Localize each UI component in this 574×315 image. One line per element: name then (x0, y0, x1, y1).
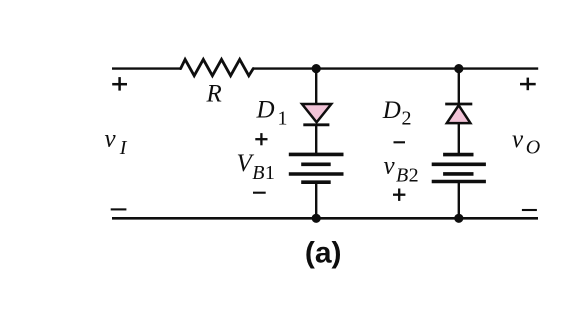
wire branch2 upper (458, 69, 460, 104)
wire top-right segment (253, 67, 538, 69)
battery VB2 plate short (443, 172, 473, 176)
plus sign VB1 (255, 133, 267, 145)
wire branch1 middle (315, 125, 317, 155)
battery VB1 plate long (289, 172, 344, 176)
minus sign VB1 (253, 192, 266, 194)
svg-text:2: 2 (402, 108, 412, 130)
diode D2 cathode bar (445, 103, 472, 106)
diode D2 triangle (447, 105, 471, 123)
minus sign output terminal (522, 209, 537, 211)
battery VB2 plate long (432, 163, 486, 167)
battery VB1 plate short (301, 163, 331, 167)
svg-text:I: I (119, 137, 128, 159)
svg-text:D: D (256, 96, 275, 123)
diode D1 cathode bar (303, 123, 329, 126)
node top-left junction dot (312, 64, 321, 73)
plus sign input terminal (112, 77, 127, 91)
svg-text:1: 1 (278, 108, 288, 130)
battery VB2 plate long bottom (432, 180, 486, 184)
node top-right junction dot (454, 64, 463, 73)
svg-text:B: B (396, 165, 408, 187)
svg-text:v: v (512, 126, 524, 153)
svg-text:D: D (382, 97, 401, 124)
plus sign vB2 (393, 189, 405, 201)
svg-text:R: R (206, 81, 222, 108)
wire branch2 middle (458, 123, 460, 155)
minus sign input terminal (111, 208, 127, 210)
node bottom-left junction dot (312, 214, 321, 223)
wire branch2 lower (458, 182, 460, 219)
wire top-left segment (112, 67, 181, 69)
wire branch1 upper (315, 69, 317, 105)
svg-text:B: B (252, 162, 264, 184)
minus sign vB2 (394, 141, 406, 143)
resistor R (181, 59, 254, 75)
diode D1 triangle (302, 104, 331, 122)
node bottom-right junction dot (454, 214, 463, 223)
svg-text:v: v (384, 153, 396, 180)
wire bottom segment (112, 217, 538, 220)
svg-text:v: v (105, 126, 117, 153)
battery VB1 plate long top (289, 153, 344, 157)
svg-text:2: 2 (409, 165, 419, 187)
plus sign output terminal (520, 78, 536, 91)
svg-text:(a): (a) (305, 236, 342, 269)
wire branch1 lower (315, 182, 317, 218)
svg-text:1: 1 (265, 162, 275, 184)
battery VB1 plate short bottom (301, 180, 331, 184)
svg-text:O: O (526, 137, 540, 159)
battery VB2 plate short top (443, 153, 473, 157)
